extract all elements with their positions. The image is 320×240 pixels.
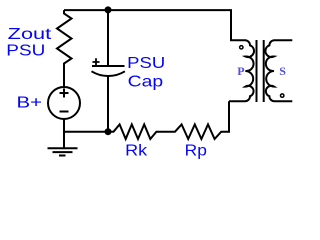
svg-text:Zout: Zout — [8, 26, 52, 43]
svg-text:Cap: Cap — [128, 74, 164, 91]
svg-text:Rp: Rp — [185, 142, 207, 159]
svg-text:Rk: Rk — [125, 143, 148, 160]
svg-text:PSU: PSU — [127, 55, 165, 72]
svg-text:PSU: PSU — [6, 43, 45, 60]
svg-text:B+: B+ — [17, 95, 43, 112]
svg-text:S: S — [279, 64, 286, 78]
svg-text:P: P — [237, 64, 244, 78]
